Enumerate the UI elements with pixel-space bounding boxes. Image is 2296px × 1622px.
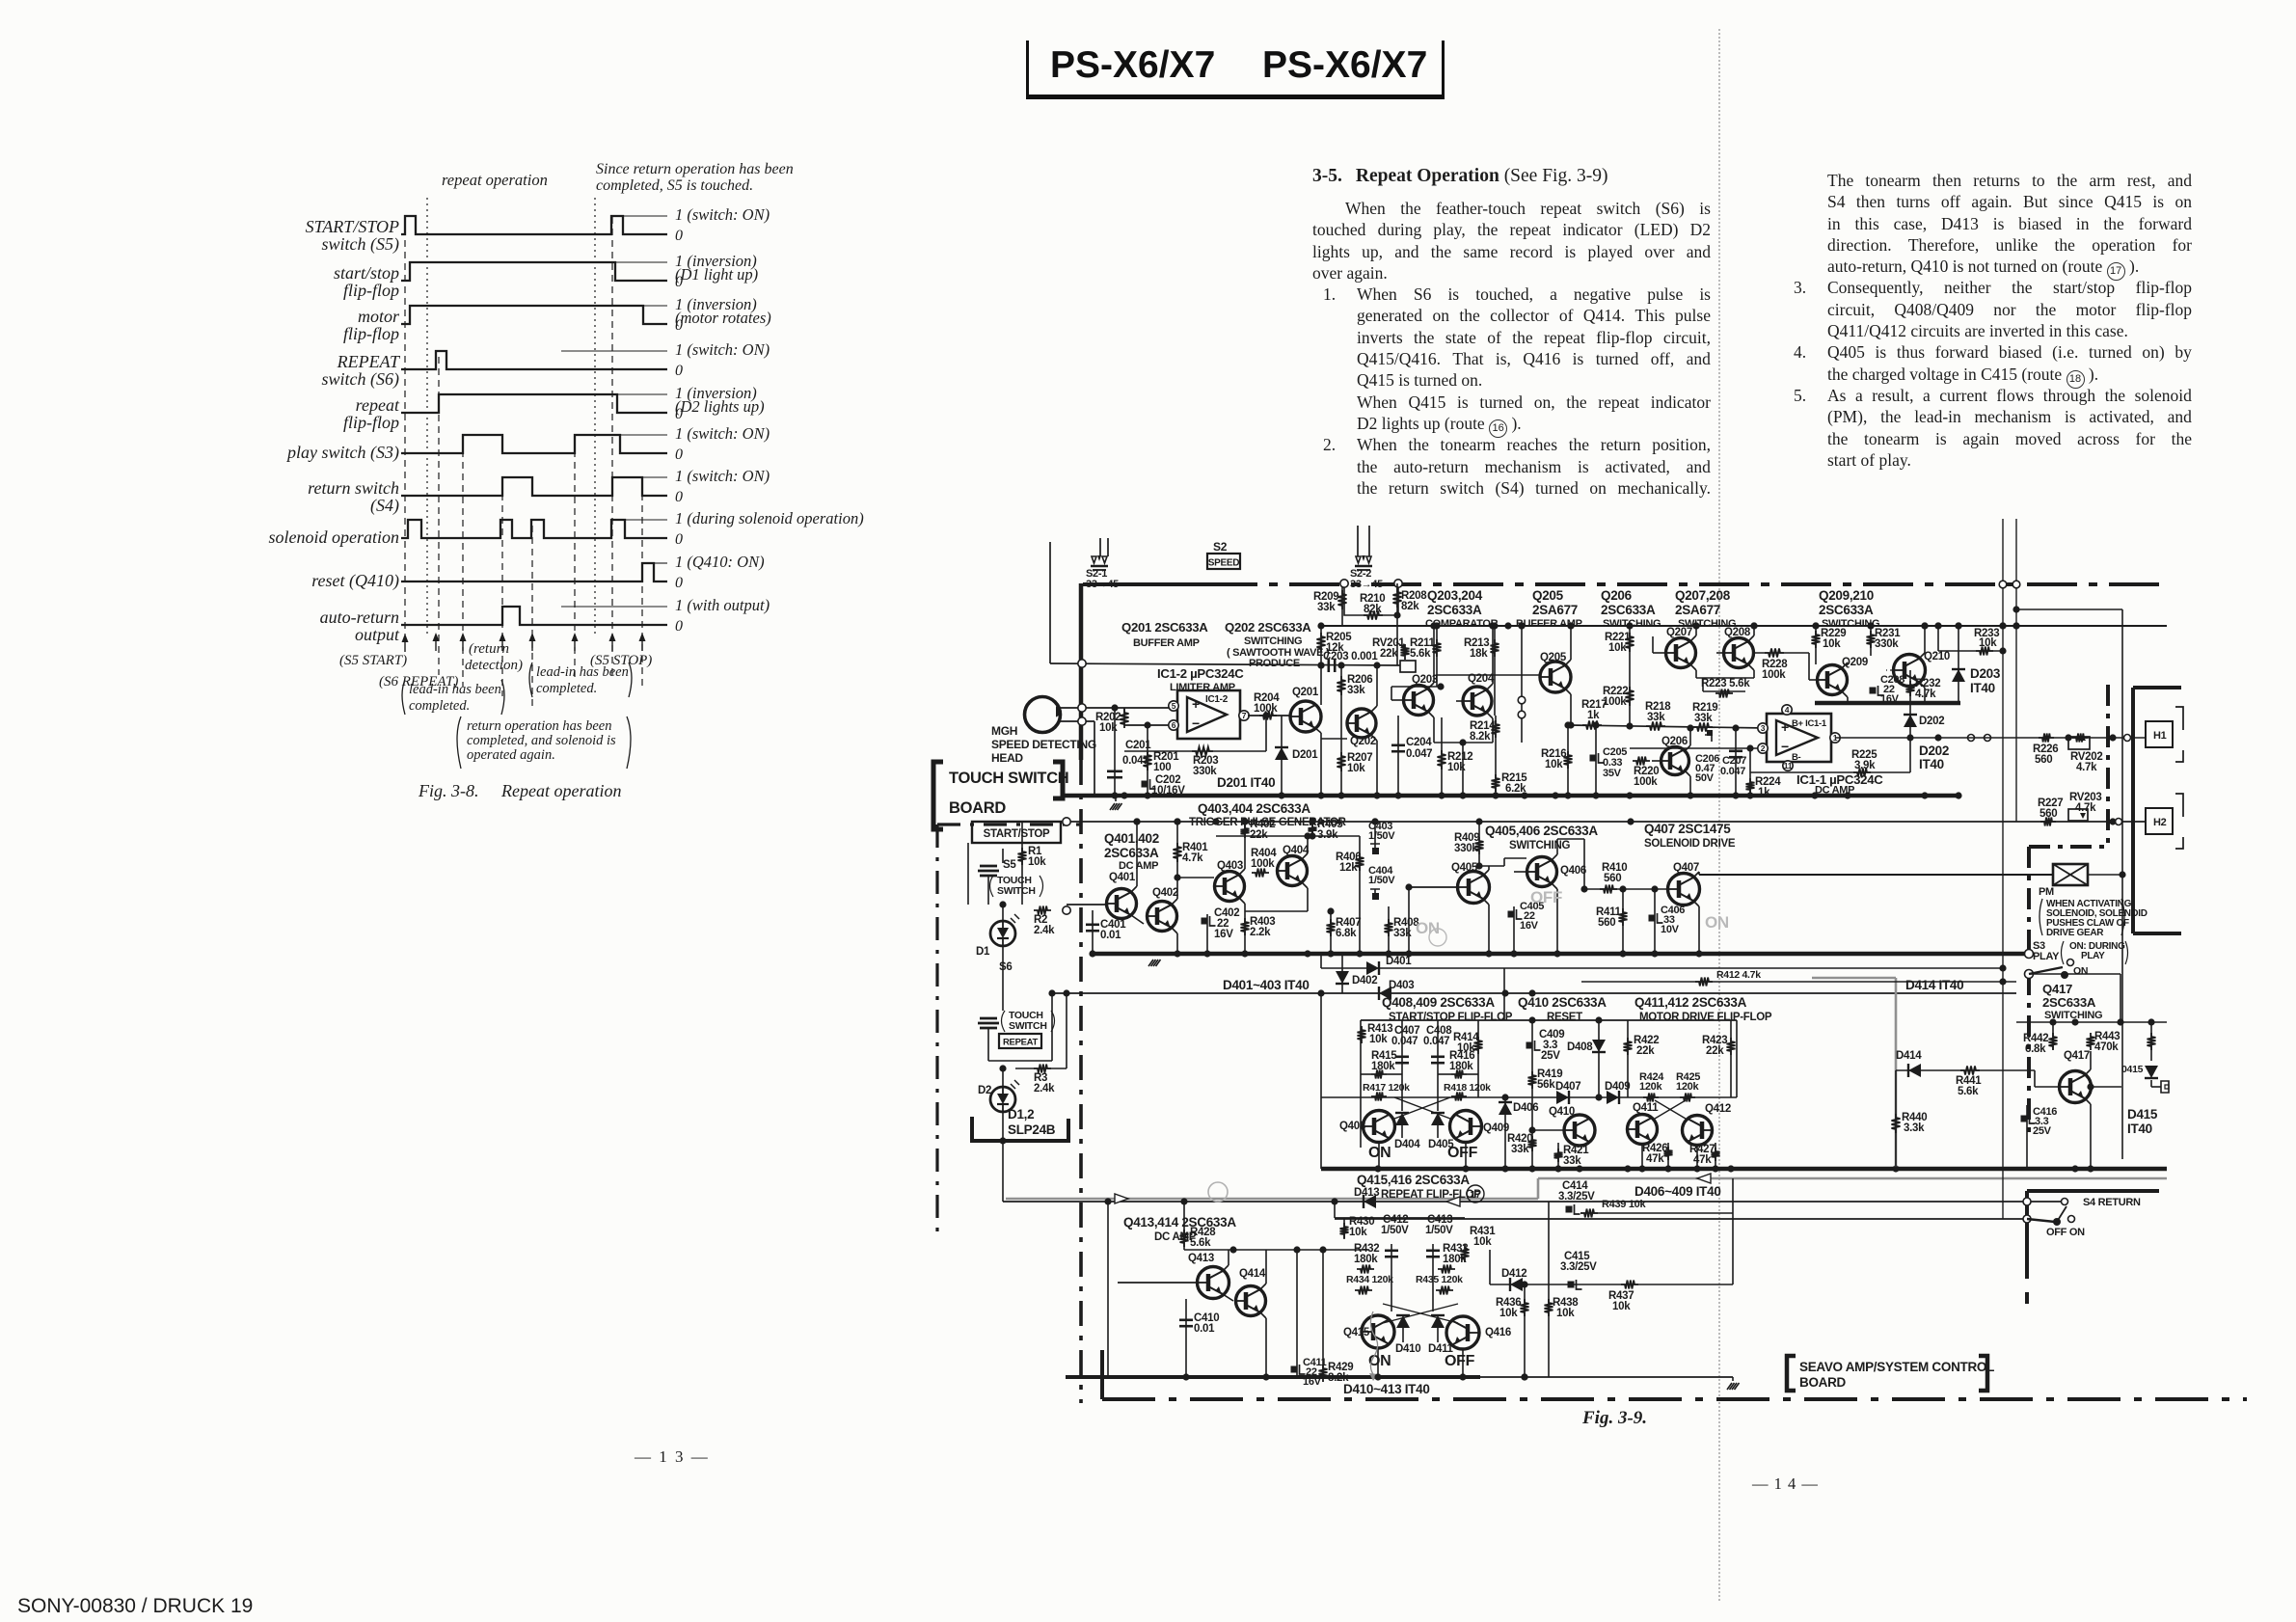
svg-text:Q413: Q413: [1188, 1253, 1214, 1264]
svg-text:R412 4.7k: R412 4.7k: [1716, 969, 1761, 981]
resistor R210 loop: [1344, 583, 1398, 615]
svg-text:Q207,208: Q207,208: [1675, 588, 1731, 603]
diode D410: [1396, 1315, 1410, 1328]
svg-text:D2: D2: [978, 1085, 991, 1096]
svg-text:4.7k: 4.7k: [2075, 802, 2096, 814]
resistor R223: [1696, 677, 1754, 679]
wire H-plate feed y=632: [2016, 608, 2122, 610]
diode D411: [1431, 1315, 1445, 1328]
wire: collector bus y=649: [1321, 625, 2167, 627]
svg-text:DC AMP: DC AMP: [1815, 785, 1854, 797]
resistor R428: [1183, 1202, 1185, 1250]
diode D201: [1281, 716, 1283, 796]
svg-text:D1: D1: [976, 946, 990, 958]
svg-text:SPEED: SPEED: [1208, 558, 1239, 569]
resistor R218: [1646, 722, 1665, 731]
svg-text:2SA677: 2SA677: [1675, 603, 1720, 617]
box REPEAT: [999, 1034, 1041, 1048]
svg-text:0: 0: [675, 618, 683, 635]
svg-text:return switch: return switch: [308, 478, 399, 498]
resistor R430: [1340, 1223, 1349, 1238]
svg-text:Q412: Q412: [1705, 1103, 1731, 1115]
resistor R231: [1870, 626, 1872, 656]
svg-text:IC1-2: IC1-2: [1205, 694, 1229, 705]
diode D407: [1556, 1091, 1569, 1104]
wire: D401-403 line y=1030: [1052, 992, 2016, 994]
svg-text:10k: 10k: [1028, 856, 1046, 868]
svg-text:completed.: completed.: [536, 681, 597, 696]
capacitor C403: [1374, 822, 1376, 844]
svg-text:47k: 47k: [1646, 1153, 1664, 1165]
svg-text:ON: ON: [1705, 913, 1729, 932]
svg-text:100k: 100k: [1634, 776, 1658, 788]
svg-text:Q417: Q417: [2064, 1050, 2090, 1062]
svg-text:0.047: 0.047: [1423, 1036, 1449, 1047]
diode D202: [1909, 703, 1911, 738]
squiggle arrow at Q415: [1370, 1311, 1377, 1377]
diode D412: [1490, 1284, 1562, 1285]
svg-text:START/STOP: START/STOP: [984, 828, 1050, 840]
svg-text:Fig. 3-9.: Fig. 3-9.: [1581, 1408, 1647, 1428]
svg-text:DC AMP: DC AMP: [1119, 860, 1158, 872]
route circle 16 ghost: [1208, 1182, 1228, 1202]
svg-text:BOARD: BOARD: [1799, 1375, 1847, 1390]
svg-text:Q415: Q415: [1343, 1327, 1370, 1338]
svg-text:5.6k: 5.6k: [1190, 1237, 1211, 1249]
svg-text:H2: H2: [2153, 817, 2167, 828]
resistor R209: [1341, 583, 1343, 626]
svg-text:2: 2: [1761, 743, 1766, 753]
resistor R211: [1436, 626, 1438, 687]
wire right column x=2077: [2002, 519, 2004, 1219]
svg-text:D407: D407: [1555, 1081, 1580, 1093]
svg-text:MOTOR DRIVE FLIP-FLOP: MOTOR DRIVE FLIP-FLOP: [1639, 1012, 1772, 1023]
svg-text:R417 120k: R417 120k: [1363, 1082, 1410, 1094]
svg-text:R418 120k: R418 120k: [1444, 1082, 1491, 1094]
svg-text:C204: C204: [1406, 737, 1432, 748]
capacitor C401: [1092, 910, 1094, 954]
svg-text:IC1-2 µPC324C: IC1-2 µPC324C: [1157, 666, 1244, 681]
svg-text:16V: 16V: [1520, 920, 1539, 932]
svg-text:10k: 10k: [1823, 638, 1841, 650]
svg-text:D403: D403: [1389, 980, 1414, 991]
resistor R427: [1715, 1143, 1716, 1169]
svg-text:lead-in has been: lead-in has been: [409, 682, 501, 697]
svg-text:solenoid operation: solenoid operation: [269, 527, 400, 547]
svg-text:Q401,402: Q401,402: [1104, 831, 1159, 846]
svg-text:SWITCHING: SWITCHING: [1244, 635, 1302, 647]
svg-text:−: −: [1781, 739, 1789, 754]
wire D2 to route line: [1002, 1112, 1004, 1202]
wire S6 to line: [987, 1028, 989, 1061]
wire: FF block top rail y=1058: [1361, 1019, 1737, 1021]
svg-text:2SA677: 2SA677: [1532, 603, 1578, 617]
svg-text:0: 0: [675, 317, 683, 334]
svg-text:1 (switch: ON): 1 (switch: ON): [675, 205, 770, 224]
pot RV202: [2068, 737, 2090, 749]
svg-text:D203: D203: [1970, 666, 2001, 681]
svg-text:1 (with output): 1 (with output): [675, 596, 770, 614]
svg-text:SEAVO AMP/SYSTEM CONTROL: SEAVO AMP/SYSTEM CONTROL: [1799, 1360, 1994, 1374]
resistor R436: [1524, 1284, 1526, 1321]
svg-text:+: +: [1192, 696, 1200, 712]
svg-text:D408: D408: [1567, 1041, 1593, 1053]
svg-text:PRODUCE: PRODUCE: [1249, 658, 1300, 669]
svg-text:22k: 22k: [1706, 1045, 1724, 1057]
capacitor C402: [1206, 914, 1208, 954]
resistor R438: [1548, 1202, 1550, 1377]
svg-text:17: 17: [1470, 1189, 1481, 1201]
svg-text:return operation has been: return operation has been: [467, 718, 612, 734]
svg-text:auto-return: auto-return: [320, 608, 399, 627]
svg-text:5: 5: [1172, 701, 1176, 711]
svg-text:S2: S2: [1213, 540, 1228, 554]
svg-text:Q402: Q402: [1152, 887, 1178, 899]
svg-text:0.047: 0.047: [1391, 1036, 1418, 1047]
svg-text:100k: 100k: [1251, 858, 1275, 870]
ground under mid bus: [1115, 796, 1117, 801]
svg-text:10k: 10k: [1608, 642, 1627, 654]
svg-text:SWITCH: SWITCH: [1009, 1020, 1047, 1032]
svg-text:detection): detection): [465, 658, 523, 673]
wire board internals: [967, 843, 969, 905]
svg-text:2SC633A: 2SC633A: [1819, 603, 1874, 617]
box START/STOP: [972, 822, 1061, 843]
wires from touch board: [1063, 818, 1070, 825]
resistor R412: [1581, 981, 2016, 983]
svg-text:PLAY: PLAY: [2033, 951, 2060, 962]
ground at repeat bottom: [1732, 1377, 1734, 1381]
svg-text:(S5 START): (S5 START): [339, 653, 407, 668]
diode D402: [1341, 954, 1343, 993]
svg-text:+: +: [1781, 719, 1789, 735]
route 16 highlight: [1006, 1198, 1538, 1201]
resistor R404: [1245, 870, 1277, 872]
header box PS-X6/X7: [1026, 41, 1445, 99]
svg-text:R439 10k: R439 10k: [1602, 1199, 1646, 1210]
svg-text:18k: 18k: [1470, 648, 1488, 660]
svg-text:0: 0: [675, 274, 683, 290]
svg-text:22k: 22k: [1380, 648, 1398, 660]
svg-text:BOARD: BOARD: [949, 799, 1006, 817]
svg-text:PM: PM: [2039, 886, 2054, 898]
svg-text:8.2k: 8.2k: [1470, 731, 1491, 743]
switch S4 RETURN: [2023, 1198, 2031, 1205]
border: head board dash-dot: [2106, 685, 2110, 847]
svg-text:25V: 25V: [1541, 1050, 1560, 1062]
diode D405: [1431, 1113, 1445, 1125]
svg-text:82k: 82k: [1401, 601, 1419, 612]
svg-text:completed, S5 is touched.: completed, S5 is touched.: [596, 177, 753, 194]
svg-text:D410: D410: [1395, 1343, 1420, 1355]
wire: top supply bus (dash-dot): [1083, 582, 1207, 586]
svg-text:3: 3: [1761, 723, 1766, 733]
svg-text:REPEAT: REPEAT: [1003, 1038, 1039, 1048]
op-amp IC1-1: [1767, 714, 1831, 762]
svg-text:470k: 470k: [2094, 1041, 2119, 1053]
bracket SEAVO AMP/SYSTEM CONTROL BOARD: [1787, 1356, 1796, 1391]
svg-text:33k: 33k: [1647, 712, 1665, 723]
svg-text:1 (Q410: ON): 1 (Q410: ON): [675, 553, 765, 571]
svg-text:D202: D202: [1919, 716, 1944, 727]
svg-text:2.4k: 2.4k: [1034, 1083, 1055, 1095]
resistor R426: [1667, 1143, 1669, 1169]
wire: row line y=852: [1067, 821, 2146, 823]
svg-text:3.3/25V: 3.3/25V: [1558, 1191, 1595, 1203]
route 17 highlight vertical: [1537, 1178, 1540, 1199]
wire op-amp output y=765: [1835, 737, 1958, 739]
bracket TOUCH SWITCH BOARD: [933, 762, 943, 829]
svg-text:S6: S6: [999, 961, 1012, 973]
svg-text:4.7k: 4.7k: [1182, 852, 1203, 864]
svg-text:OFF: OFF: [1447, 1145, 1478, 1161]
capacitor C207: [1735, 728, 1737, 796]
svg-text:OFF: OFF: [1530, 888, 1562, 906]
wire x=2201 vertical: [2121, 609, 2123, 1159]
solenoid PM: [2053, 864, 2088, 885]
svg-text:10k: 10k: [1473, 1236, 1492, 1248]
svg-text:100k: 100k: [1603, 696, 1627, 708]
svg-text:IT40: IT40: [1919, 757, 1944, 771]
svg-text:22k: 22k: [1250, 829, 1268, 841]
wire: S4 line y=1264: [1335, 1218, 2027, 1220]
resistor R421: [1557, 1143, 1559, 1169]
cross coupling start/stop ff: [1394, 1097, 1450, 1119]
junction dots on buses: [1111, 792, 1118, 798]
svg-text:2SC633A: 2SC633A: [1427, 603, 1482, 617]
svg-text:330k: 330k: [1454, 843, 1478, 854]
ground under bus: [1148, 960, 1153, 966]
wire collector row y=867: [1216, 835, 1360, 837]
svg-text:33k: 33k: [1511, 1144, 1529, 1155]
capacitor C410: [1185, 1299, 1187, 1377]
resistor R408: [1360, 906, 1389, 907]
svg-text:completed.: completed.: [409, 698, 470, 714]
svg-text:560: 560: [2039, 808, 2057, 820]
svg-text:DRIVE GEAR: DRIVE GEAR: [2046, 928, 2104, 938]
svg-text:R223 5.6k: R223 5.6k: [1701, 678, 1750, 689]
svg-text:D401~403 IT40: D401~403 IT40: [1223, 978, 1310, 992]
svg-text:560: 560: [2035, 754, 2052, 766]
svg-text:2.4k: 2.4k: [1034, 925, 1055, 936]
capacitor C204: [1397, 716, 1399, 796]
svg-text:Q417: Q417: [2042, 982, 2072, 996]
svg-text:PLAY: PLAY: [2081, 951, 2105, 961]
resistor R215: [1495, 743, 1497, 796]
svg-text:−: −: [1192, 716, 1200, 731]
svg-text:10k: 10k: [1556, 1308, 1575, 1319]
svg-text:33k: 33k: [1317, 602, 1336, 613]
svg-text:2SC633A: 2SC633A: [1601, 603, 1656, 617]
svg-text:Q404: Q404: [1283, 845, 1310, 856]
svg-text:D406: D406: [1513, 1102, 1538, 1114]
svg-text:1 (during solenoid operation): 1 (during solenoid operation): [675, 509, 864, 527]
text column 1: [1312, 166, 1711, 500]
svg-text:OFF ON: OFF ON: [2046, 1227, 2085, 1238]
wire: thick mid bus y=825: [1063, 794, 1960, 798]
svg-text:33k: 33k: [1347, 685, 1365, 696]
svg-text:Q411: Q411: [1633, 1102, 1659, 1114]
svg-text:lead-in has been: lead-in has been: [536, 664, 629, 680]
svg-text:25V: 25V: [2033, 1125, 2052, 1137]
svg-text:B-: B-: [1792, 752, 1801, 763]
svg-text:D412: D412: [1501, 1268, 1526, 1280]
capacitor C208: [1870, 688, 1877, 694]
svg-text:Q202 2SC633A: Q202 2SC633A: [1225, 620, 1311, 635]
svg-text:33k: 33k: [1694, 713, 1713, 724]
svg-text:82k: 82k: [1364, 604, 1382, 615]
wire Q417 top rail y=1060: [2016, 1021, 2167, 1023]
resistor R204: [1248, 715, 1290, 716]
svg-text:B+ IC1-1: B+ IC1-1: [1792, 718, 1827, 729]
svg-text:Q416: Q416: [1485, 1327, 1511, 1338]
connector S2-1: [1099, 538, 1101, 556]
resistor R225 feedback: [1749, 748, 1751, 772]
svg-text:Repeat operation: Repeat operation: [500, 781, 621, 800]
svg-text:1k: 1k: [1758, 787, 1770, 798]
svg-text:100: 100: [1153, 762, 1171, 773]
diode D415: [2145, 1066, 2158, 1078]
svg-text:0.047: 0.047: [1122, 755, 1148, 767]
svg-text:5.6k: 5.6k: [1410, 648, 1431, 660]
resistor R232: [1909, 670, 1911, 703]
connector S2-2: [1357, 526, 1359, 556]
diode D409: [1607, 1091, 1619, 1104]
resistor R229: [1815, 626, 1817, 664]
svg-text:Since return operation has bee: Since return operation has been: [596, 161, 794, 177]
resistor R410: [1584, 888, 1668, 890]
svg-text:6.8k: 6.8k: [1336, 928, 1357, 939]
svg-text:START/STOP: START/STOP: [306, 217, 399, 236]
svg-text:start/stop: start/stop: [334, 263, 399, 283]
svg-text:3.9k: 3.9k: [1854, 760, 1876, 771]
capacitor C406: [1654, 889, 1656, 954]
capacitor C203: [1328, 659, 1331, 672]
svg-text:Q414: Q414: [1239, 1268, 1266, 1280]
svg-text:— 1 4 —: — 1 4 —: [1751, 1474, 1819, 1493]
wire LED down: [1002, 946, 1004, 1011]
svg-text:10k: 10k: [1369, 1034, 1388, 1045]
svg-text:Fig. 3-8.: Fig. 3-8.: [418, 781, 479, 800]
diode D406: [1504, 1097, 1506, 1169]
resistor R442: [2052, 1022, 2054, 1049]
route 17 highlight to right: [1538, 1177, 2167, 1180]
svg-text:2SC633A: 2SC633A: [2042, 995, 2096, 1010]
wire solenoid line y=907: [1699, 874, 2053, 876]
border: servo board bottom dash-dot: [1102, 1397, 2247, 1401]
svg-text:completed, and solenoid is: completed, and solenoid is: [467, 733, 616, 748]
resistor R411: [1622, 889, 1624, 954]
svg-text:IT40: IT40: [1970, 681, 1995, 695]
svg-text:flip-flop: flip-flop: [343, 281, 399, 300]
svg-text:C201: C201: [1125, 740, 1151, 751]
resistor R207: [1337, 752, 1346, 771]
resistor R224: [1749, 772, 1751, 796]
capacitor C202: [1142, 781, 1148, 788]
wire: thick flip-flop bus y=1212: [1321, 1167, 2167, 1172]
wire MGH to IC: [1059, 707, 1174, 709]
svg-text:reset (Q410): reset (Q410): [311, 571, 399, 591]
svg-text:flip-flop: flip-flop: [343, 324, 399, 343]
svg-text:330k: 330k: [1193, 766, 1217, 777]
svg-text:repeat: repeat: [356, 395, 400, 415]
resistor R226: [1958, 737, 2146, 739]
pot RV201: [1404, 644, 1406, 665]
svg-text:START/STOP FLIP-FLOP: START/STOP FLIP-FLOP: [1389, 1012, 1513, 1023]
resistor R222: [1629, 626, 1631, 725]
svg-text:(D1 light up): (D1 light up): [675, 265, 758, 284]
svg-text:10/16V: 10/16V: [1151, 785, 1185, 797]
diode D203: [1958, 626, 1959, 703]
resistor R405: [1311, 822, 1313, 836]
wire: left rail x=1089: [1049, 542, 1051, 663]
wire: route line y=1246: [1003, 1201, 2065, 1203]
resistor R1: [1021, 822, 1023, 905]
svg-text:RESET: RESET: [1547, 1012, 1582, 1023]
svg-text:Q408,409 2SC633A: Q408,409 2SC633A: [1382, 995, 1495, 1010]
resistor R213: [1494, 626, 1496, 716]
svg-text:D401: D401: [1386, 956, 1412, 967]
capacitor C411: [1296, 1250, 1298, 1377]
svg-text:0.047: 0.047: [1406, 748, 1432, 760]
svg-text:(S4): (S4): [370, 496, 399, 516]
svg-text:SOLENOID DRIVE: SOLENOID DRIVE: [1644, 838, 1736, 850]
svg-text:6.2k: 6.2k: [1505, 783, 1526, 795]
resistor R208: [1396, 583, 1398, 665]
resistor R441: [1960, 1067, 1980, 1075]
svg-text:50V: 50V: [1695, 772, 1715, 784]
svg-text:(return: (return: [469, 641, 509, 657]
svg-text:H1: H1: [2153, 730, 2167, 742]
resistor R419: [1528, 1071, 1537, 1089]
svg-text:0: 0: [675, 446, 683, 463]
capacitor C205: [1595, 725, 1597, 796]
wire: sawtooth line y=688: [1050, 663, 1400, 665]
resistor R413: [1358, 1026, 1366, 1043]
svg-text:ON: ON: [2073, 965, 2088, 977]
capacitor C405: [1513, 906, 1515, 954]
wire: repeat-ff bottom y=1428: [1066, 1375, 1480, 1379]
svg-text:10k: 10k: [1545, 759, 1563, 770]
svg-text:R434 120k: R434 120k: [1346, 1274, 1393, 1285]
svg-text:Q201: Q201: [1292, 687, 1319, 698]
resistor R216: [1567, 725, 1569, 796]
svg-text:S4 RETURN: S4 RETURN: [2083, 1197, 2141, 1208]
svg-text:47k: 47k: [1693, 1154, 1712, 1166]
svg-text:3.3k: 3.3k: [1904, 1122, 1925, 1134]
svg-text:switch (S6): switch (S6): [322, 369, 400, 390]
svg-text:BUFFER AMP: BUFFER AMP: [1133, 637, 1200, 649]
svg-text:HEAD: HEAD: [991, 751, 1023, 765]
svg-text:D414: D414: [1896, 1050, 1922, 1062]
resistor R440: [1895, 1070, 1897, 1169]
svg-text:0.01: 0.01: [1100, 930, 1121, 941]
resistor R2: [1015, 909, 1067, 911]
svg-text:D202: D202: [1919, 743, 1949, 758]
svg-text:OFF: OFF: [1445, 1353, 1475, 1369]
svg-text:Q406: Q406: [1560, 865, 1586, 877]
svg-text:switch (S5): switch (S5): [322, 234, 400, 255]
svg-text:3.3/25V: 3.3/25V: [1560, 1261, 1597, 1273]
svg-text:120k: 120k: [1639, 1081, 1662, 1093]
svg-text:D402: D402: [1352, 975, 1377, 987]
svg-text:10k: 10k: [1612, 1301, 1631, 1312]
capacitor C201: [1114, 708, 1116, 796]
svg-text:D415: D415: [2127, 1107, 2158, 1122]
cross coupling motor ff: [1655, 1100, 1686, 1119]
svg-text:10k: 10k: [1447, 762, 1466, 773]
svg-text:R435 120k: R435 120k: [1416, 1274, 1463, 1285]
